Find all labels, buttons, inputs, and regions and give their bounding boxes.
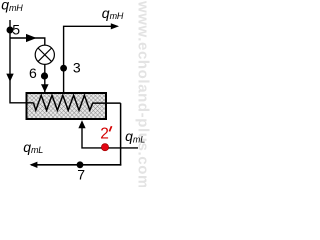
svg-text:qmH: qmH xyxy=(1,0,23,13)
svg-text:6: 6 xyxy=(29,65,37,81)
svg-text:2: 2 xyxy=(100,125,109,142)
expansion valve (circle with X) xyxy=(35,45,54,64)
node 2' (red) xyxy=(101,144,108,151)
arrow: into vessel bottom (points up) xyxy=(78,120,85,128)
svg-text:5: 5 xyxy=(12,22,20,38)
wire: branch from node 5 to expansion valve xyxy=(10,38,45,45)
svg-text:7: 7 xyxy=(77,167,85,183)
wire: q_mL inflow line with 2' to vessel bottom xyxy=(82,128,138,148)
wire: coil exit down right side xyxy=(120,103,122,166)
node 3 xyxy=(60,65,67,72)
node 7 xyxy=(77,161,84,168)
arrow: branch (points right) xyxy=(26,34,37,42)
wire: valve to vessel top xyxy=(44,64,46,92)
arrow: bottom-left outflow (points left) xyxy=(30,162,38,168)
arrow: q_mH outflow (points right) xyxy=(111,23,119,29)
arrow: into vessel top (points down) xyxy=(41,84,49,92)
coil (zigzag) through vessel xyxy=(34,95,121,110)
heat exchanger vessel (hatched box) xyxy=(27,93,107,119)
wire: left line from node 5 down and into coil xyxy=(10,20,34,103)
arrow: on left line (points down) xyxy=(6,74,13,82)
svg-text:3: 3 xyxy=(73,59,81,75)
node 6 xyxy=(41,72,48,79)
node 5 xyxy=(7,27,14,34)
wire: vapour outlet, vessel top to q_mH arrow xyxy=(64,26,118,93)
svg-text:www.echoland-plus.com: www.echoland-plus.com xyxy=(135,0,152,187)
